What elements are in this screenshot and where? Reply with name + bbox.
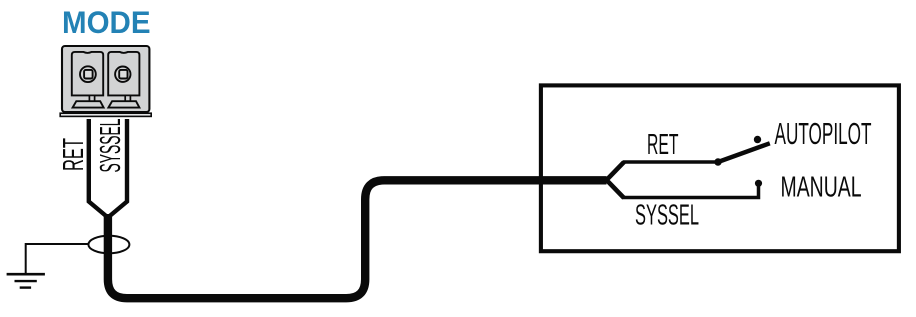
- svg-text:SYSSEL: SYSSEL: [635, 200, 699, 232]
- svg-text:MANUAL: MANUAL: [781, 172, 862, 204]
- contact dot MANUAL: [755, 180, 762, 187]
- wire SYSSEL pin to junction: [108, 119, 127, 218]
- contact dot AUTOPILOT: [754, 136, 761, 143]
- wire RET pin to junction: [89, 119, 108, 218]
- svg-text:RET: RET: [647, 129, 679, 161]
- node cable split: [607, 162, 625, 198]
- connector J1 clamp foot 1: [73, 101, 104, 107]
- cable (thick) junction to device box: [108, 180, 607, 298]
- connector J1 bottom flange: [60, 113, 151, 116]
- connector J1 screw 1: [80, 66, 96, 82]
- ground wire: [26, 244, 89, 273]
- connector J1 cell 1: [72, 52, 103, 96]
- cable shield ellipse: [88, 236, 129, 254]
- connector J1 screw 2: [115, 67, 130, 82]
- connector J1 clamp stem 2: [125, 95, 130, 101]
- connector J1 clamp stem 1: [89, 95, 94, 101]
- connector J1 cell 2: [108, 52, 139, 96]
- connector J1 body: [62, 46, 149, 112]
- switch common junction dot: [714, 158, 721, 165]
- wire SYSSEL to MANUAL contact: [623, 185, 759, 198]
- switch lever: [718, 143, 770, 162]
- svg-text:MODE: MODE: [62, 4, 151, 40]
- svg-text:RET: RET: [58, 138, 90, 171]
- svg-text:SYSSEL: SYSSEL: [95, 119, 127, 173]
- device box: [541, 85, 899, 251]
- wire RET to switch common: [623, 160, 718, 164]
- connector J1 clamp foot 2: [108, 101, 139, 107]
- ground symbol: [7, 274, 45, 287]
- svg-text:AUTOPILOT: AUTOPILOT: [775, 117, 872, 151]
